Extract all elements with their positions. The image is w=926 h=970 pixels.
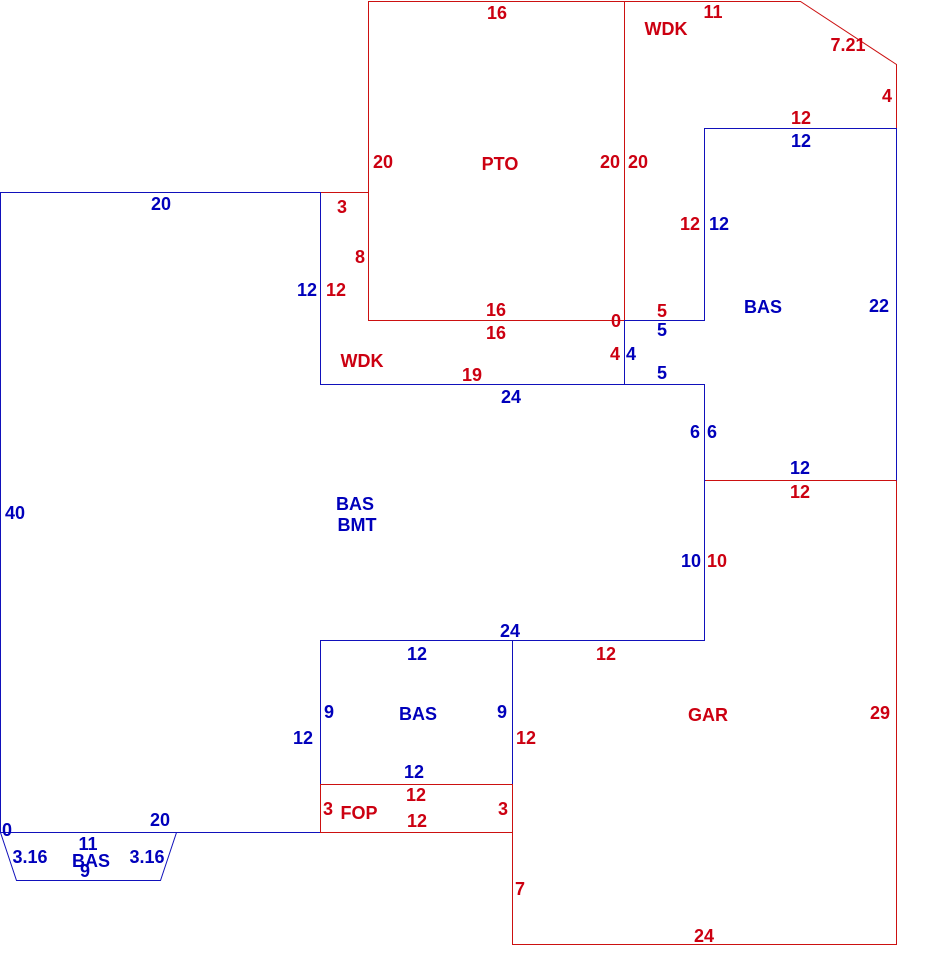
svg-text:12: 12 [790,482,810,502]
svg-text:WDK: WDK [645,19,688,39]
svg-text:12: 12 [516,728,536,748]
svg-text:29: 29 [870,703,890,723]
BAS small outline [321,641,513,785]
BAS BMT basement outline [1,193,705,833]
svg-text:40: 40 [5,503,25,523]
svg-text:3: 3 [323,799,333,819]
svg-text:10: 10 [681,551,701,571]
PTO patio outline [369,2,625,321]
svg-text:7.21: 7.21 [830,35,865,55]
svg-text:3.16: 3.16 [12,847,47,867]
svg-text:7: 7 [515,879,525,899]
svg-text:BAS: BAS [336,494,374,514]
svg-text:12: 12 [293,728,313,748]
svg-text:20: 20 [373,152,393,172]
GAR top edge red overlay [706,480,897,482]
svg-text:11: 11 [703,2,722,22]
svg-text:5: 5 [657,363,667,383]
BAS upper-right outline [625,129,897,481]
BAS trapezoid outline [1,833,177,881]
svg-text:3.16: 3.16 [129,847,164,867]
svg-text:24: 24 [500,621,520,641]
FOP porch outline [321,785,513,833]
svg-text:BAS: BAS [72,851,110,871]
svg-text:20: 20 [150,810,170,830]
svg-text:4: 4 [882,86,892,106]
svg-text:12: 12 [404,762,424,782]
svg-text:12: 12 [297,280,317,300]
svg-text:PTO: PTO [482,154,519,174]
svg-text:4: 4 [626,344,636,364]
svg-text:22: 22 [869,296,889,316]
svg-text:BAS: BAS [399,704,437,724]
svg-text:BAS: BAS [744,297,782,317]
svg-text:9: 9 [80,861,90,881]
svg-text:9: 9 [497,702,507,722]
svg-text:12: 12 [790,458,810,478]
svg-text:6: 6 [690,422,700,442]
WDK upper deck outline [625,2,897,321]
svg-text:12: 12 [791,108,811,128]
svg-text:8: 8 [355,247,365,267]
svg-text:GAR: GAR [688,705,728,725]
WDK lower deck outline [321,193,625,385]
svg-text:12: 12 [709,214,729,234]
svg-text:12: 12 [680,214,700,234]
svg-text:20: 20 [151,194,171,214]
svg-text:12: 12 [326,280,346,300]
svg-text:10: 10 [707,551,727,571]
svg-text:4: 4 [610,344,620,364]
svg-text:FOP: FOP [340,803,377,823]
svg-text:WDK: WDK [341,351,384,371]
svg-text:12: 12 [406,785,426,805]
svg-text:9: 9 [324,702,334,722]
svg-text:5: 5 [657,320,667,340]
svg-text:20: 20 [628,152,648,172]
svg-text:12: 12 [407,644,427,664]
svg-text:6: 6 [707,422,717,442]
svg-text:BMT: BMT [338,515,377,535]
svg-text:0: 0 [2,820,12,840]
svg-text:24: 24 [501,387,521,407]
svg-text:12: 12 [596,644,616,664]
svg-text:16: 16 [486,300,506,320]
svg-text:3: 3 [498,799,508,819]
svg-text:12: 12 [407,811,427,831]
svg-text:5: 5 [657,301,667,321]
svg-text:24: 24 [694,926,714,946]
svg-text:19: 19 [462,365,482,385]
svg-text:12: 12 [791,131,811,151]
GAR garage outline [513,481,897,945]
svg-text:3: 3 [337,197,347,217]
svg-text:16: 16 [486,323,506,343]
svg-text:0: 0 [611,311,621,331]
svg-text:16: 16 [487,3,507,23]
svg-text:20: 20 [600,152,620,172]
